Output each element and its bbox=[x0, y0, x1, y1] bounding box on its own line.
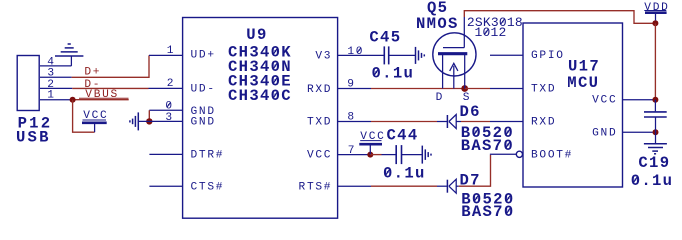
wire TXD net to D6 (red) bbox=[371, 121, 437, 123]
svg-text:GPIO: GPIO bbox=[531, 50, 565, 62]
transistor Q5 circle body bbox=[433, 33, 476, 76]
wire V3 to C45 bbox=[338, 54, 385, 56]
wire Q5 source to U17 TXD (red then blue) bbox=[465, 88, 490, 90]
svg-text:C45: C45 bbox=[369, 29, 401, 47]
wire VDD rail to C19 bbox=[654, 100, 656, 112]
transistor Q5 substrate arrow bbox=[450, 63, 458, 88]
svg-text:U17: U17 bbox=[568, 58, 600, 76]
capacitor C44 bbox=[396, 145, 401, 164]
wire under Q5 drain-source (red) bbox=[443, 88, 465, 90]
wire C45 to ground bbox=[389, 54, 415, 56]
ground (earth, right-pointing) at C45 bbox=[416, 47, 425, 64]
wire RXD net to Q5 drain (red) bbox=[371, 88, 443, 90]
capacitor C45 bbox=[384, 46, 388, 64]
junction GND node bbox=[146, 118, 152, 124]
svg-text:VCC: VCC bbox=[307, 150, 332, 162]
svg-text:U9: U9 bbox=[246, 26, 267, 44]
wire VCC to C44 (red then blue) bbox=[370, 154, 381, 156]
power symbol VCC (near P12) bbox=[82, 110, 108, 123]
wire VBUS net (red) bbox=[73, 99, 129, 101]
wire into U17 TXD pin bbox=[490, 88, 523, 90]
svg-text:1012: 1012 bbox=[475, 25, 507, 40]
pin 2 stub wire bbox=[40, 87, 72, 89]
wire D+ net (red) bbox=[72, 55, 149, 77]
BOOT# inverting bubble bbox=[516, 151, 522, 157]
junction U17 VCC node bbox=[652, 97, 658, 103]
svg-text:V3: V3 bbox=[315, 50, 332, 62]
svg-text:3: 3 bbox=[47, 68, 55, 80]
transistor Q5 channel bar bbox=[438, 52, 467, 55]
slashed zeros of CH340x values bbox=[273, 48, 278, 55]
wire RTS# net to D7 (red) bbox=[371, 185, 437, 187]
connector P12 body bbox=[17, 56, 39, 111]
svg-text:S: S bbox=[463, 92, 471, 104]
svg-text:0.1u: 0.1u bbox=[631, 172, 674, 190]
svg-text:CTS#: CTS# bbox=[191, 182, 225, 194]
wire U9 GND pin 3 bbox=[138, 120, 183, 122]
wire D- into U9 pin 2 bbox=[149, 87, 184, 89]
wire BOOT# riser (blue) bbox=[491, 153, 517, 156]
svg-text:RTS#: RTS# bbox=[299, 181, 333, 193]
wire U17 VCC to VDD rail bbox=[623, 99, 653, 101]
svg-text:TXD: TXD bbox=[307, 117, 332, 129]
svg-text:1: 1 bbox=[167, 45, 175, 57]
junction VDD node bbox=[652, 20, 658, 26]
ground (earth) at C19 bbox=[644, 144, 667, 154]
transistor Q5 source lead bbox=[464, 55, 466, 89]
wire GND bus vertical bbox=[148, 110, 150, 121]
svg-text:VCC: VCC bbox=[83, 110, 108, 122]
svg-text:MCU: MCU bbox=[567, 74, 599, 92]
pin 3 stub wire bbox=[40, 76, 72, 78]
svg-text:CH340C: CH340C bbox=[228, 87, 292, 105]
svg-text:NMOS: NMOS bbox=[416, 15, 459, 33]
wire into C44 bbox=[382, 154, 397, 156]
wire TXD stub (blue) bbox=[338, 121, 372, 123]
wire VBUS to VCC symbol (red) bbox=[73, 100, 95, 133]
svg-text:RXD: RXD bbox=[531, 117, 556, 129]
svg-text:BAS70: BAS70 bbox=[461, 137, 514, 155]
node label VBUS bbox=[79, 89, 129, 101]
svg-text:0.1u: 0.1u bbox=[383, 164, 426, 182]
transistor Q5 top lead bbox=[463, 17, 465, 48]
IC U17 body bbox=[523, 23, 623, 187]
svg-text:C19: C19 bbox=[638, 154, 670, 172]
svg-text:GND: GND bbox=[592, 127, 617, 139]
svg-text:BOOT#: BOOT# bbox=[531, 149, 573, 161]
wire DTR# stub bbox=[149, 153, 183, 155]
svg-text:USB: USB bbox=[16, 128, 51, 146]
wire C44 to ground bbox=[402, 154, 423, 156]
wire D6 to U17 RXD (red) bbox=[461, 121, 490, 123]
svg-text:DTR#: DTR# bbox=[191, 150, 225, 162]
svg-text:D+: D+ bbox=[84, 67, 101, 79]
wire RTS# stub (blue) bbox=[338, 185, 372, 187]
transistor Q5 drain lead bbox=[442, 55, 444, 89]
wire U9 GND pin 0 bbox=[149, 109, 183, 111]
wire D+ into U9 pin 1 bbox=[149, 54, 183, 56]
wire VDD rail down (red) bbox=[654, 23, 656, 99]
wire CTS# stub bbox=[149, 185, 183, 187]
power symbol VCC (at C44) bbox=[359, 131, 385, 154]
wire Q5 top to VDD rail (red) bbox=[464, 11, 652, 24]
wire D- net (red) bbox=[72, 87, 148, 89]
slashed zeros of D6 values bbox=[474, 129, 479, 136]
svg-text:1: 1 bbox=[47, 90, 55, 102]
svg-text:VCC: VCC bbox=[360, 131, 385, 143]
junction VBUS node bbox=[70, 97, 76, 103]
wire GND node to earth bbox=[655, 132, 657, 143]
transistor Q5 gate line bbox=[443, 47, 464, 49]
svg-text:C44: C44 bbox=[387, 127, 419, 145]
junction Q5 source node bbox=[461, 85, 468, 92]
slashed zeros of Q5 part labels bbox=[501, 19, 505, 25]
svg-text:VCC: VCC bbox=[592, 95, 617, 107]
wire RXD stub (blue) bbox=[338, 88, 372, 90]
svg-text:2: 2 bbox=[167, 78, 175, 90]
wire C19 to GND node bbox=[655, 117, 657, 132]
pin 4 stub wire bbox=[40, 65, 71, 67]
slashed zeros of pin numbers bbox=[357, 48, 361, 53]
wire VCC stem bbox=[94, 124, 96, 133]
diode D7 bbox=[437, 179, 459, 193]
ground (earth, right-pointing) at C44 bbox=[422, 146, 431, 164]
svg-text:9: 9 bbox=[347, 79, 355, 91]
diode D6 bbox=[437, 115, 461, 129]
svg-text:VDD: VDD bbox=[644, 2, 669, 14]
IC U9 body bbox=[183, 18, 338, 219]
capacitor C19 bbox=[644, 112, 667, 117]
svg-text:BAS70: BAS70 bbox=[461, 203, 514, 221]
wire VCC stub U9 pin 7 bbox=[338, 154, 371, 156]
slashed zeros of capacitor values 0.1u bbox=[374, 69, 379, 76]
power symbol VDD bbox=[644, 2, 669, 21]
svg-text:UD+: UD+ bbox=[191, 50, 216, 62]
junction VCC node at C44 bbox=[367, 152, 373, 158]
svg-text:10: 10 bbox=[347, 46, 364, 58]
svg-text:VBUS: VBUS bbox=[85, 89, 119, 101]
ground (earth) at USB shield bbox=[55, 44, 83, 66]
svg-text:3: 3 bbox=[165, 112, 173, 124]
wire U17 GND to C19 bbox=[623, 131, 653, 133]
svg-text:TXD: TXD bbox=[531, 84, 556, 96]
svg-text:8: 8 bbox=[347, 112, 355, 124]
svg-text:UD-: UD- bbox=[191, 84, 216, 96]
pin 1 stub wire bbox=[40, 99, 73, 101]
wire GPIO stub bbox=[490, 54, 523, 56]
wire into U17 RXD pin bbox=[490, 121, 523, 123]
slashed zeros of D7 values bbox=[474, 195, 479, 202]
svg-text:7: 7 bbox=[348, 145, 356, 157]
svg-text:0.1u: 0.1u bbox=[372, 65, 415, 83]
svg-text:RXD: RXD bbox=[307, 84, 332, 96]
svg-text:D6: D6 bbox=[460, 103, 481, 121]
junction U17 GND node bbox=[653, 129, 659, 135]
ground (earth, left-pointing) at U9 GND bbox=[130, 112, 138, 130]
svg-text:D: D bbox=[436, 92, 444, 104]
wire D7 to BOOT# (red) bbox=[459, 155, 491, 186]
svg-text:GND: GND bbox=[191, 116, 216, 128]
